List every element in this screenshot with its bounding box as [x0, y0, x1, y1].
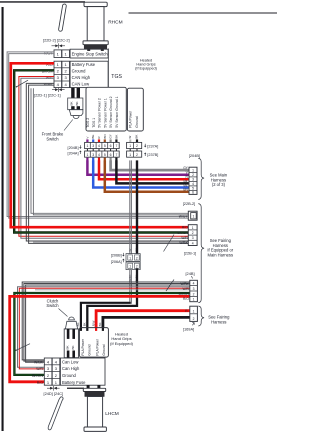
- colored stubs into block: [80, 328, 82, 331]
- svg-text:[204B]: [204B]: [68, 146, 79, 150]
- TGS wire color letters below row A: [85, 166, 138, 252]
- front brake switch body: [69, 110, 83, 116]
- svg-text:BK/GN: BK/GN: [179, 292, 190, 296]
- 22B-2 connector box: [188, 211, 197, 220]
- svg-text:R/O: R/O: [183, 297, 189, 301]
- clutch switch housing box: [64, 329, 78, 358]
- svg-text:(If Equipped): (If Equipped): [110, 341, 134, 346]
- svg-text:4: 4: [98, 144, 100, 148]
- svg-text:Battery Fuse: Battery Fuse: [62, 380, 86, 385]
- svg-text:7: 7: [115, 153, 117, 157]
- crossing slash left of 24B: [166, 280, 174, 292]
- svg-text:BK: BK: [70, 101, 74, 105]
- svg-text:[22B-1]: [22B-1]: [184, 251, 197, 256]
- wire W/R run (RHCM to 22B-1 pin3): [19, 77, 188, 239]
- 24B connector box: [190, 280, 198, 301]
- svg-text:GY: GY: [109, 134, 113, 138]
- wire BK from 206A down-left to LHCM grip connector: [87, 269, 137, 329]
- PLA connector row 237B: [127, 151, 142, 157]
- svg-text:4: 4: [98, 153, 100, 157]
- grip-to-connector stub left: [87, 49, 90, 51]
- svg-text:PLA Power: PLA Power: [128, 110, 132, 128]
- svg-text:Main Harness: Main Harness: [208, 252, 234, 257]
- svg-text:Can Low: Can Low: [62, 359, 78, 364]
- 206B connector box: [126, 254, 140, 262]
- svg-text:W: W: [128, 136, 132, 139]
- svg-text:[204B]: [204B]: [189, 153, 200, 158]
- clutch switch wires BK BK: [67, 329, 70, 339]
- LHCM heated grip connector block: [79, 328, 108, 358]
- brace see fairing harness (bottom): [198, 306, 204, 326]
- wire W/BK run (RHCM to 22B-1 pin4): [26, 83, 188, 243]
- svg-text:4: 4: [192, 182, 194, 186]
- wire V TGS to 204B pin2: [87, 160, 188, 174]
- svg-text:5V Sensor Ground 1: 5V Sensor Ground 1: [115, 96, 119, 127]
- TGS connector row 204A: [85, 151, 120, 157]
- PLA connector row 237A: [127, 142, 142, 148]
- svg-text:2: 2: [136, 153, 138, 157]
- svg-text:Switch: Switch: [46, 303, 59, 308]
- svg-text:Switch: Switch: [46, 136, 59, 141]
- svg-text:2: 2: [136, 144, 138, 148]
- svg-text:Ground: Ground: [88, 344, 92, 355]
- brace see main harness: [198, 158, 204, 199]
- wire W from 206A down-left to LHCM grip connector: [129, 270, 131, 302]
- svg-text:Engine Stop Switch: Engine Stop Switch: [72, 52, 109, 57]
- wire R/O run (RHCM to 22B-1 pin1): [11, 63, 189, 227]
- colored stubs below row A: [86, 158, 117, 161]
- svg-text:RHCM: RHCM: [108, 20, 122, 26]
- svg-text:1: 1: [86, 144, 88, 148]
- svg-text:[204A]: [204A]: [68, 151, 79, 155]
- wire W from 237B pin1 down to 206B: [129, 160, 131, 253]
- front brake switch leader line: [64, 120, 73, 131]
- svg-text:BK/GN: BK/GN: [178, 231, 189, 235]
- wire BK from 237B pin2 down to 206B: [136, 160, 138, 253]
- wire GY TGS to 204B pin1: [111, 160, 189, 170]
- svg-text:Can High: Can High: [62, 366, 80, 371]
- LHCM grip body: [87, 397, 102, 428]
- LHCM main harness wire: R/O to 24B pin1: [10, 296, 190, 381]
- bracket line left of LHCM flange: [67, 388, 84, 389]
- dimension arrow below LHCM table: [47, 386, 60, 391]
- RHCM grip body: [87, 7, 104, 41]
- TGS block: [86, 87, 126, 131]
- 204B wire labels: [183, 166, 188, 192]
- svg-text:W/BK: W/BK: [34, 360, 44, 364]
- table-to-grip stub right: [97, 385, 100, 388]
- svg-text:2: 2: [136, 265, 138, 269]
- heated grips wire letters (LHCM): [76, 320, 102, 326]
- svg-text:[24D] [24C]: [24D] [24C]: [44, 391, 64, 396]
- LHCM main harness wire: BK/GN to 24B pin2: [14, 293, 189, 375]
- svg-text:4: 4: [193, 282, 195, 286]
- svg-text:W/R: W/R: [181, 236, 188, 240]
- svg-text:6: 6: [192, 191, 194, 195]
- wire BN TGS to 204B pin6: [105, 160, 189, 191]
- svg-text:BK: BK: [76, 322, 80, 326]
- svg-text:(If Equipped): (If Equipped): [135, 67, 157, 71]
- TGS wire color letters above row B: [85, 134, 138, 138]
- svg-text:[237B]: [237B]: [147, 153, 158, 157]
- svg-text:[22D-1] [22C-1]: [22D-1] [22C-1]: [34, 92, 61, 97]
- svg-text:W/GY: W/GY: [179, 214, 189, 218]
- svg-text:Ground: Ground: [62, 373, 77, 378]
- svg-text:TGS: TGS: [111, 74, 122, 80]
- wire W/GY from 22D-1 down to 22B-2: [31, 88, 188, 215]
- LHCM grip flange: [83, 388, 105, 391]
- svg-text:2: 2: [193, 317, 195, 321]
- svg-text:3: 3: [193, 287, 195, 291]
- svg-text:LHCM: LHCM: [105, 411, 119, 417]
- brake lever (RHCM): [58, 4, 66, 32]
- svg-text:5: 5: [104, 144, 106, 148]
- svg-text:1: 1: [129, 265, 131, 269]
- front brake switch housing: [68, 98, 83, 110]
- svg-text:1: 1: [129, 153, 131, 157]
- page header line right: [129, 12, 278, 13]
- svg-text:R/W: R/W: [91, 320, 95, 326]
- svg-text:Ground: Ground: [135, 116, 139, 128]
- svg-text:1: 1: [192, 168, 194, 172]
- dimension arrow bottom of 22D: [52, 87, 65, 92]
- LHCM 4-pin description box: [60, 358, 105, 385]
- svg-text:BK: BK: [75, 101, 79, 105]
- svg-text:1: 1: [129, 256, 131, 260]
- brace see fairing harness / main harness: [198, 204, 204, 303]
- svg-text:CAN High: CAN High: [72, 75, 91, 80]
- svg-text:Ground: Ground: [102, 344, 106, 355]
- svg-text:BN: BN: [103, 134, 107, 138]
- svg-text:[22B-2]: [22B-2]: [183, 201, 196, 206]
- svg-text:BK: BK: [98, 322, 102, 326]
- svg-text:BK: BK: [71, 345, 75, 349]
- svg-text:W/BK: W/BK: [179, 241, 188, 245]
- svg-text:TGS 1: TGS 1: [92, 118, 96, 128]
- svg-text:PLA Power: PLA Power: [96, 338, 100, 355]
- svg-text:W/R: W/R: [182, 287, 189, 291]
- svg-text:6: 6: [110, 144, 112, 148]
- LHCM main harness wires: W/BK to 24B pin4: [22, 282, 190, 362]
- svg-text:BN: BN: [183, 188, 188, 192]
- svg-text:2: 2: [136, 256, 138, 260]
- svg-text:3: 3: [92, 153, 94, 157]
- crossing slash right of 22B wires: [164, 235, 175, 252]
- svg-text:[206B]: [206B]: [111, 253, 122, 257]
- clutch switch leader line: [59, 309, 68, 317]
- svg-text:BK/GN: BK/GN: [32, 374, 43, 378]
- label 169A with arrow: [192, 323, 194, 326]
- svg-text:W/R: W/R: [36, 367, 43, 371]
- svg-text:2: 2: [193, 292, 195, 296]
- svg-text:1: 1: [86, 153, 88, 157]
- 204B connector box: [189, 167, 197, 194]
- TGS connector row 204B: [85, 142, 120, 148]
- housing line right of 22D connector: [107, 49, 109, 88]
- svg-text:1: 1: [129, 144, 131, 148]
- 22B-1 connector box: [188, 225, 197, 246]
- wire BK TGS to 204B pin4: [116, 160, 188, 183]
- LHCM grip base cap: [84, 427, 106, 431]
- page border top-left line: [0, 1, 85, 3]
- 169A connector box: [190, 306, 198, 321]
- svg-text:TGS 2: TGS 2: [86, 118, 90, 128]
- svg-text:BK: BK: [83, 322, 87, 326]
- table-to-grip stub left: [87, 385, 90, 388]
- wire BK heated grips to 169A pin2: [103, 317, 190, 328]
- svg-text:1: 1: [192, 226, 194, 230]
- svg-text:2: 2: [192, 231, 194, 235]
- PLA block (RHCM heated grip): [127, 88, 143, 131]
- svg-text:BE: BE: [91, 135, 95, 139]
- svg-text:BK: BK: [114, 135, 118, 139]
- wire BK/GN run (RHCM to 22B-1 pin2): [14, 70, 188, 232]
- RHCM grip flange: [83, 41, 108, 45]
- clutch switch body: [69, 317, 75, 320]
- svg-text:3: 3: [92, 144, 94, 148]
- connector mating pins between rows: [87, 149, 138, 151]
- engine stop switch pin box (harness side): [62, 50, 70, 58]
- engine stop switch description box: [70, 49, 108, 58]
- svg-text:3: 3: [192, 236, 194, 240]
- svg-text:5V Sensor Power 1: 5V Sensor Power 1: [103, 98, 107, 128]
- svg-text:6: 6: [110, 153, 112, 157]
- svg-text:Harness: Harness: [211, 320, 226, 325]
- svg-text:Ground: Ground: [72, 69, 87, 74]
- RHCM grip dark band: [84, 45, 107, 49]
- svg-text:1: 1: [193, 309, 195, 313]
- svg-text:[237A]: [237A]: [147, 145, 158, 149]
- svg-text:[24B]: [24B]: [185, 271, 194, 276]
- 4-pin connector description box: [70, 61, 108, 87]
- LHCM 4-pin pin boxes (device): [44, 358, 52, 385]
- label 237B with arrow: [144, 153, 146, 156]
- svg-text:5: 5: [104, 153, 106, 157]
- svg-text:3: 3: [192, 177, 194, 181]
- svg-text:5V Sensor Power 2: 5V Sensor Power 2: [98, 98, 102, 128]
- label 237A with arrow: [144, 144, 146, 147]
- svg-text:[22D-2] [22C-2]: [22D-2] [22C-2]: [43, 37, 70, 42]
- svg-text:PLA Power: PLA Power: [81, 338, 85, 355]
- LHCM grip dark band: [85, 392, 104, 397]
- svg-text:2: 2: [192, 173, 194, 177]
- svg-text:Battery Fuse: Battery Fuse: [72, 62, 96, 67]
- clutch lever (LHCM): [48, 397, 63, 430]
- svg-text:BK: BK: [66, 345, 70, 349]
- crossing slash bottom-left bundle: [16, 344, 30, 351]
- svg-text:7: 7: [115, 144, 117, 148]
- wire R/GY from ESS pin to left vertical: [7, 52, 188, 218]
- front brake switch wires BK BK: [71, 88, 74, 99]
- LHCM main harness wires: W/R to 24B pin3: [18, 287, 190, 369]
- crossing slash top-left bundle: [17, 80, 29, 87]
- colored stubs above row B: [86, 139, 138, 142]
- 4-pin connector pin boxes column (device): [54, 61, 62, 87]
- RHCM grip cap: [84, 2, 107, 6]
- svg-text:1: 1: [193, 298, 195, 302]
- wire labels at 24B: [179, 282, 190, 301]
- grip-to-connector stub right: [101, 49, 104, 51]
- svg-text:W/BK: W/BK: [180, 282, 189, 286]
- heated grip pin names: [81, 338, 106, 355]
- wire BE TGS to 204B pin5: [93, 160, 188, 187]
- svg-text:R/O: R/O: [37, 381, 44, 385]
- page border left: [2, 7, 4, 431]
- svg-text:CAN Low: CAN Low: [72, 82, 90, 87]
- svg-text:5V Sensor Ground 2: 5V Sensor Ground 2: [109, 96, 113, 127]
- wire labels at 22B-1: [178, 226, 189, 246]
- svg-text:(2 of 3): (2 of 3): [212, 182, 226, 187]
- LHCM wire labels: [32, 360, 44, 384]
- 4-pin connector pin boxes column (harness): [62, 61, 70, 87]
- svg-text:4: 4: [192, 241, 194, 245]
- svg-text:1: 1: [192, 215, 194, 219]
- 206A connector box: [126, 262, 140, 270]
- svg-text:BK: BK: [134, 135, 138, 139]
- engine stop switch pin box (device side): [54, 50, 62, 58]
- svg-text:R/O: R/O: [182, 226, 188, 230]
- svg-text:[206A]: [206A]: [111, 260, 122, 264]
- wire R TGS to 204B pin3: [99, 160, 189, 179]
- svg-text:[169A]: [169A]: [183, 327, 194, 332]
- svg-text:V: V: [85, 137, 89, 139]
- dimension arrow top: [52, 43, 66, 48]
- LHCM 4-pin pin boxes (harness): [52, 358, 60, 385]
- wire R heated grips to 169A pin1: [96, 311, 190, 329]
